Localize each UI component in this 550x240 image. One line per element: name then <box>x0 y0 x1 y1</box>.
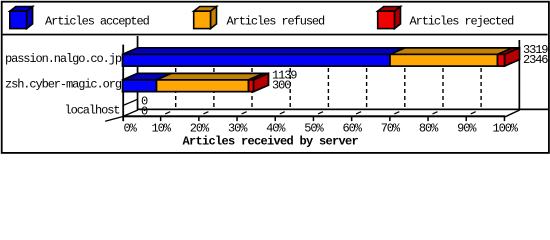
outer border frame <box>2 2 549 153</box>
bar 2 top face red <box>249 73 269 80</box>
floor-right diagonal edge <box>505 110 520 117</box>
svg-text:30%: 30% <box>228 122 248 136</box>
floor gridline dash 30% <box>242 112 247 114</box>
front bottom axis line <box>122 115 505 117</box>
svg-text:passion.nalgo.co.jp: passion.nalgo.co.jp <box>5 52 122 66</box>
x-axis tick 30% <box>236 117 238 122</box>
bar 2 top face orange <box>157 73 264 80</box>
svg-text:zsh.cyber-magic.org: zsh.cyber-magic.org <box>5 78 122 92</box>
floor gridline dash 50% <box>318 112 323 114</box>
svg-text:100%: 100% <box>493 122 519 136</box>
x-axis tick 90% <box>466 117 468 122</box>
svg-text:60%: 60% <box>343 122 363 136</box>
legend separator line <box>3 34 548 36</box>
bar 1 right side face red <box>505 48 520 66</box>
bar 2 right side face red <box>254 73 269 91</box>
bar 1 top face blue <box>123 48 406 55</box>
bar 2 (zsh.cyber-magic.org) <box>123 73 269 91</box>
bar 2 front face orange (refused) <box>157 80 249 92</box>
x-axis tick 80% <box>427 117 429 122</box>
svg-text:20%: 20% <box>190 122 210 136</box>
x-axis tick 60% <box>351 117 353 122</box>
dashed back gridline 90% <box>480 47 482 109</box>
dashed back gridline 40% <box>289 47 291 109</box>
svg-text:localhost: localhost <box>65 104 120 118</box>
svg-text:Articles accepted: Articles accepted <box>45 15 150 29</box>
svg-text:Articles received by server: Articles received by server <box>183 135 359 149</box>
svg-text:50%: 50% <box>304 122 324 136</box>
svg-text:40%: 40% <box>266 122 286 136</box>
legend cube orange (refused) <box>194 7 217 29</box>
x-axis tick 100% <box>504 117 506 122</box>
bar 1 front face red (rejected) <box>498 54 505 66</box>
floor gridline dash 20% <box>203 112 208 114</box>
zero bar top diagonal (localhost) <box>123 99 138 106</box>
dashed back gridline 50% <box>327 47 329 109</box>
bar 1 front face orange (refused) <box>390 54 498 66</box>
svg-text:10%: 10% <box>152 122 172 136</box>
front-left axis vertical with 0% tick <box>122 45 124 122</box>
svg-text:2346: 2346 <box>523 53 548 67</box>
bar 1 (passion.nalgo.co.jp) <box>123 48 520 66</box>
svg-text:0%: 0% <box>124 122 138 136</box>
x-axis tick 10% <box>160 117 162 122</box>
floor gridline dash 70% <box>394 112 399 114</box>
back-left axis vertical <box>137 36 139 110</box>
svg-text:90%: 90% <box>457 122 477 136</box>
bar 1 top face orange <box>390 48 513 55</box>
x-axis tick 40% <box>275 117 277 122</box>
dashed back gridline 60% <box>366 47 368 109</box>
dashed back gridline 80% <box>442 47 444 109</box>
x-axis tick 20% <box>198 117 200 122</box>
bar 1 front face blue (accepted) <box>123 54 391 66</box>
floor-left diagonal overshoot <box>105 110 138 121</box>
x-axis tick 50% <box>313 117 315 122</box>
floor gridline dash 60% <box>356 112 361 114</box>
floor gridline dash 40% <box>280 112 285 114</box>
x-axis tick 70% <box>389 117 391 122</box>
bar 2 top face blue <box>123 73 172 80</box>
back-bottom floor line <box>137 109 548 111</box>
svg-text:80%: 80% <box>419 122 439 136</box>
dashed back gridline 30% <box>251 47 253 109</box>
bar 2 front face red (rejected) <box>249 80 254 92</box>
dashed back gridline 20% <box>213 47 215 109</box>
floor gridline dash 90% <box>471 112 476 114</box>
svg-text:Articles refused: Articles refused <box>227 15 326 29</box>
legend cube blue (accepted) <box>10 7 33 29</box>
svg-text:70%: 70% <box>381 122 401 136</box>
svg-text:0: 0 <box>141 104 148 118</box>
bar 2 front face blue (accepted) <box>123 80 157 92</box>
svg-text:300: 300 <box>272 79 291 93</box>
floor gridline dash 10% <box>165 112 170 114</box>
dashed back gridline 10% <box>175 47 177 109</box>
floor gridline dash 80% <box>433 112 438 114</box>
bar 1 top face red <box>498 48 520 55</box>
back-right axis vertical <box>519 40 521 110</box>
dashed back gridline 70% <box>404 47 406 109</box>
legend cube red (rejected) <box>378 7 401 29</box>
svg-text:Articles rejected: Articles rejected <box>410 15 515 29</box>
